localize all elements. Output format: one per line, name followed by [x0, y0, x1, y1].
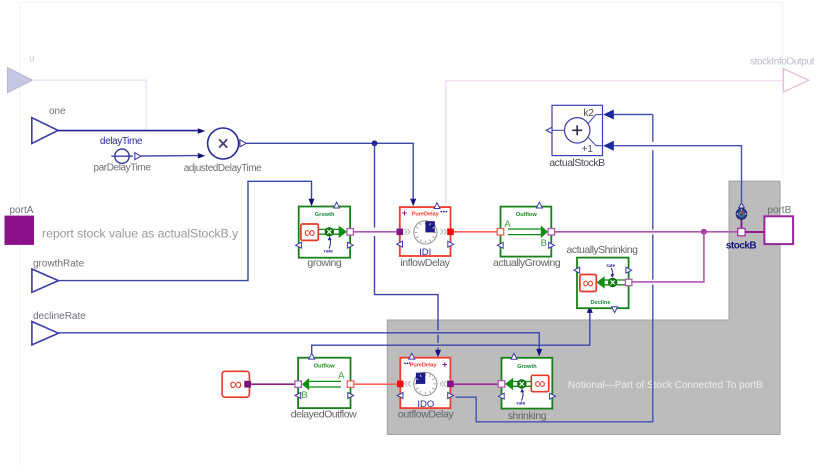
svg-text:+: + — [442, 359, 447, 369]
wire gauge to stockB square — [741, 219, 743, 228]
node stockInfoOutput (output connector, faded) — [750, 57, 815, 92]
wire delayedOutflow to actuallyShrinking — [312, 305, 593, 356]
flow wire stockB to portB — [745, 231, 764, 233]
stockB gauge icon — [736, 209, 747, 220]
flow wire growing to inflowDelay (dark purple) — [353, 231, 396, 233]
node portA (purple square) — [5, 205, 35, 245]
svg-text:inflowDelay: inflowDelay — [400, 257, 450, 269]
svg-text:∞: ∞ — [534, 376, 545, 393]
block delayedOutflow — [295, 353, 354, 408]
svg-text:Growth: Growth — [517, 364, 537, 370]
svg-text:Decline: Decline — [591, 300, 611, 306]
block shrinking — [498, 353, 555, 408]
block outflowDelay IDO — [397, 353, 454, 410]
flow wire cloud to delayedOutflow (dark purple) — [251, 383, 295, 385]
svg-text:portA: portA — [10, 205, 34, 216]
flow wire delayedOutflow to outflowDelay (salmon) — [354, 383, 397, 385]
svg-text:portB: portB — [767, 205, 791, 216]
svg-text:∞: ∞ — [583, 275, 594, 292]
svg-text:stockB: stockB — [726, 241, 757, 252]
svg-text:∞: ∞ — [229, 374, 241, 394]
svg-text:parDelayTime: parDelayTime — [93, 163, 151, 174]
flow wire outflowDelay to shrinking (purple) — [454, 383, 499, 385]
flow junction near stockB — [701, 229, 707, 235]
svg-text:Growth: Growth — [315, 212, 335, 218]
stockB sensor triangle — [739, 203, 745, 208]
svg-text:growing: growing — [307, 257, 342, 269]
svg-text:k2: k2 — [583, 108, 594, 119]
wire parDelayTime to adjustedDelayTime — [141, 153, 206, 159]
svg-text:rate: rate — [324, 248, 333, 254]
parameter parDelayTime (delayTime) — [93, 136, 151, 174]
svg-text:report stock value as actualSt: report stock value as actualStockB.y — [42, 226, 239, 240]
node portB — [764, 205, 793, 244]
cloud source (infinity) — [222, 371, 251, 397]
wire outflowDelay to actualStockB k2 input — [456, 110, 653, 422]
svg-text:Outflow: Outflow — [516, 212, 537, 218]
node one (constant input) — [32, 106, 66, 144]
node stockB (port square) — [738, 228, 745, 235]
block inflowDelay IDI — [397, 203, 454, 258]
svg-text:Outflow: Outflow — [314, 363, 335, 369]
svg-text:+: + — [402, 208, 407, 218]
svg-text:actualStockB: actualStockB — [549, 157, 605, 169]
multiplier adjustedDelayTime — [184, 128, 262, 174]
gain block actualStockB — [546, 105, 602, 155]
svg-text:adjustedDelayTime: adjustedDelayTime — [184, 163, 262, 174]
gray notional region (L-shaped) — [387, 181, 780, 434]
svg-text:delayTime: delayTime — [100, 136, 143, 147]
svg-text:actuallyGrowing: actuallyGrowing — [493, 257, 561, 269]
block growing — [296, 202, 354, 258]
junction on adjustedDelayTime wire — [372, 140, 378, 146]
node growthRate (input connector) — [32, 259, 85, 293]
svg-text:B: B — [301, 390, 307, 401]
svg-text:rate: rate — [606, 263, 615, 269]
wire one to adjustedDelayTime — [58, 128, 205, 134]
wire adjustedDelayTime to inflowDelay — [246, 143, 416, 206]
node declineRate (input connector) — [32, 311, 86, 345]
block actuallyGrowing — [497, 202, 554, 256]
svg-text:PureDelay: PureDelay — [412, 211, 440, 217]
svg-text:stockInfoOutput: stockInfoOutput — [750, 57, 815, 68]
wire stockB to actualStockB +1 input — [603, 141, 741, 203]
svg-text:rate: rate — [516, 400, 525, 406]
wire u (faded) — [32, 80, 146, 130]
svg-text:Notional—Part of Stock Connect: Notional—Part of Stock Connected To port… — [568, 380, 763, 391]
flow wire actuallyGrowing to stockB (orchid) — [555, 231, 738, 233]
wire adjustedDelayTime to outflowDelay (with line jumps) — [375, 143, 442, 357]
svg-text:declineRate: declineRate — [33, 311, 86, 322]
svg-text:actuallyShrinking: actuallyShrinking — [567, 244, 639, 256]
svg-text:one: one — [49, 106, 66, 117]
svg-text:shrinking: shrinking — [508, 410, 547, 422]
svg-text:∞: ∞ — [304, 224, 315, 241]
svg-text:outflowDelay: outflowDelay — [398, 409, 454, 421]
svg-text:growthRate: growthRate — [33, 259, 85, 270]
svg-text:delayedOutflow: delayedOutflow — [291, 409, 357, 421]
svg-text:A: A — [338, 370, 345, 381]
svg-text:B: B — [541, 238, 547, 249]
svg-text:+1: +1 — [582, 144, 594, 155]
flow wire inflowDelay to actuallyGrowing (salmon) — [454, 231, 497, 233]
flow wire junction to actuallyShrinking (orchid) — [632, 232, 704, 282]
wire growthRate to growing — [58, 181, 314, 280]
svg-text:PureDelay: PureDelay — [410, 362, 438, 368]
node u (input connector, faded) — [8, 54, 35, 93]
block actuallyShrinking — [574, 258, 632, 313]
svg-text:u: u — [29, 54, 35, 65]
wire declineRate to shrinking — [58, 333, 542, 357]
wire stockInfoOutput (faded pink) — [446, 81, 784, 205]
